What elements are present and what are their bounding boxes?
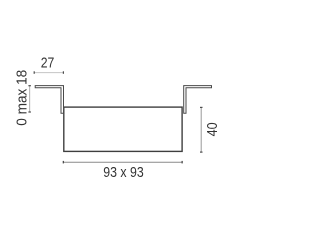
svg-text:0 max 18: 0 max 18 <box>14 70 31 126</box>
svg-text:27: 27 <box>41 54 55 71</box>
svg-text:40: 40 <box>204 122 221 136</box>
svg-text:93 x 93: 93 x 93 <box>103 164 144 181</box>
